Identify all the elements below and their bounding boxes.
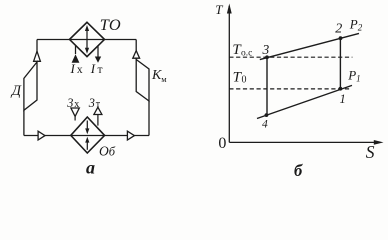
svg-text:Iт: Iт	[90, 61, 103, 76]
svg-text:ТО: ТО	[100, 15, 121, 34]
process 1-2 vertical line	[339, 38, 341, 89]
Ob internal converging arrows	[86, 121, 88, 130]
node 2	[339, 36, 343, 40]
svg-text:Об: Об	[99, 144, 116, 159]
detander D (quad symbol)	[24, 62, 37, 110]
compressor Km (quad symbol)	[136, 60, 149, 102]
svg-text:б: б	[294, 161, 303, 177]
wire right upper segment	[135, 40, 137, 60]
node 4	[265, 113, 269, 117]
dashed line T0 level	[229, 88, 351, 90]
svg-text:S: S	[366, 142, 375, 162]
flow 3x arrow (open, down) above Ob	[71, 108, 79, 116]
svg-text:То.с: То.с	[232, 42, 252, 58]
svg-text:Т0: Т0	[233, 69, 247, 85]
flow arrow (open, up) on right wire	[133, 51, 140, 59]
svg-text:Р2: Р2	[349, 17, 363, 33]
wire bottom rail	[24, 135, 149, 137]
process 3-4 vertical line	[266, 57, 268, 115]
svg-text:0: 0	[218, 135, 226, 152]
svg-text:2: 2	[335, 22, 342, 37]
node 1	[339, 87, 343, 91]
flow 3t arrow (open, up) above Ob	[94, 107, 102, 114]
dashed line T o.c level	[229, 56, 352, 58]
flow arrow (open, right) bottom-left	[38, 131, 45, 140]
svg-text:Т: Т	[215, 2, 223, 17]
svg-text:4: 4	[262, 119, 268, 131]
svg-text:3: 3	[262, 42, 270, 57]
svg-text:1: 1	[340, 92, 346, 106]
flow Ix arrow (filled, up) below TO	[75, 46, 77, 54]
svg-text:Д: Д	[10, 83, 22, 99]
flow arrow (open, up) on left wire	[34, 51, 41, 61]
node 3	[265, 55, 269, 59]
isobar P2 line (3 to 2)	[260, 33, 359, 59]
svg-text:Км: Км	[151, 68, 167, 84]
cooler Ob (bottom diamond)	[71, 117, 105, 153]
flow arrow (open, right) bottom-right	[127, 131, 134, 140]
T axis arrowhead	[227, 4, 232, 14]
T axis (vertical)	[228, 6, 230, 142]
heat exchanger TO (top diamond)	[70, 22, 105, 56]
svg-text:Iх: Iх	[70, 61, 83, 76]
TO internal double arrow	[86, 28, 88, 50]
svg-text:Р1: Р1	[347, 67, 360, 83]
flow It arrow (filled, down) below TO	[97, 46, 99, 57]
wire left upper segment	[36, 40, 38, 63]
wire top rail	[37, 39, 136, 41]
S axis (horizontal)	[229, 141, 380, 143]
isobar P1 line (4 to 1)	[257, 85, 352, 118]
svg-text:3х: 3х	[66, 96, 79, 110]
wire right lower segment	[148, 101, 150, 136]
wire left lower segment	[23, 110, 25, 135]
svg-text:3т: 3т	[88, 96, 101, 110]
svg-text:а: а	[86, 157, 95, 177]
S axis arrowhead	[374, 140, 384, 145]
